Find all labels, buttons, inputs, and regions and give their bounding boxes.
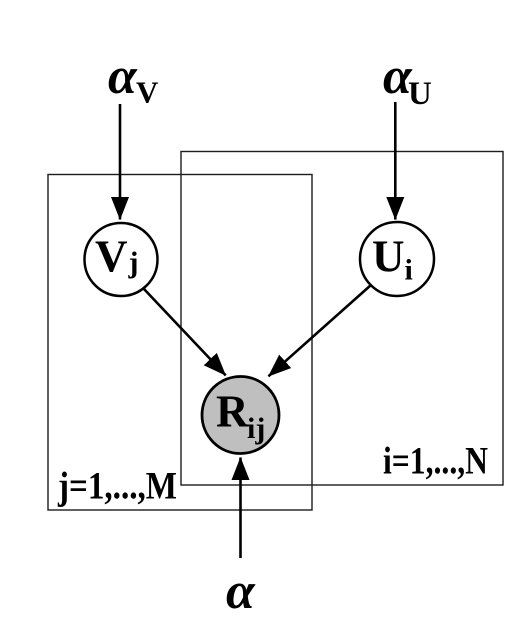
svg-text:V: V [95,232,128,282]
plate j=1,...,M (left rectangle) [48,175,312,511]
arrow alpha to R_ij [239,458,242,559]
svg-text:α: α [226,563,256,620]
svg-text:i=1,...,N: i=1,...,N [383,440,488,483]
svg-text:U: U [372,232,405,282]
node U_i (circle) [360,222,434,296]
arrow alpha_V to V_j [119,104,122,220]
svg-text:U: U [408,76,432,112]
node R_ij (shaded circle) [202,377,279,454]
arrow alpha_U to U_i [394,102,397,220]
svg-text:α: α [108,48,138,105]
svg-text:j: j [128,246,139,279]
svg-text:V: V [136,75,159,110]
node V_j (circle) [85,223,158,296]
svg-text:R: R [216,387,249,437]
plate i=1,...,N (right rectangle) [181,152,503,486]
svg-text:ij: ij [247,412,265,445]
svg-text:i: i [405,254,413,287]
arrow U_i to R_ij [268,285,371,376]
svg-text:j=1,...,M: j=1,...,M [57,465,177,508]
arrow V_j to R_ij [144,289,226,376]
